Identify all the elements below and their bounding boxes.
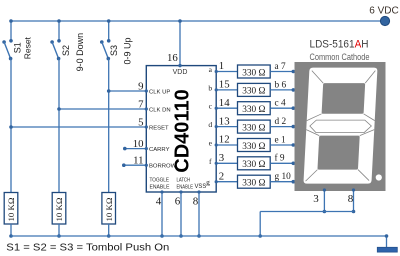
svg-text:VSS: VSS <box>195 183 207 190</box>
svg-text:b: b <box>208 83 212 92</box>
svg-text:2: 2 <box>219 170 224 182</box>
svg-text:13: 13 <box>219 115 230 127</box>
svg-text:16: 16 <box>167 52 178 64</box>
svg-text:10 KΩ: 10 KΩ <box>104 197 114 221</box>
svg-text:CD40110: CD40110 <box>171 89 193 172</box>
svg-text:330 Ω: 330 Ω <box>242 142 265 152</box>
svg-text:CLK UP: CLK UP <box>149 89 170 95</box>
svg-text:c 4: c 4 <box>275 99 286 109</box>
svg-text:8: 8 <box>193 196 199 208</box>
svg-text:3: 3 <box>219 152 224 164</box>
svg-text:S2: S2 <box>61 45 71 56</box>
svg-text:LATCH: LATCH <box>177 178 191 184</box>
svg-text:12: 12 <box>219 134 230 146</box>
svg-text:330 Ω: 330 Ω <box>242 87 265 97</box>
svg-text:CARRY: CARRY <box>149 147 170 153</box>
svg-text:CLK DN: CLK DN <box>149 107 171 113</box>
svg-text:VDD: VDD <box>173 69 188 76</box>
svg-text:ENABLE: ENABLE <box>177 185 194 191</box>
svg-text:9: 9 <box>138 80 143 92</box>
svg-text:5: 5 <box>138 116 143 128</box>
svg-text:1: 1 <box>219 60 224 72</box>
svg-text:e 1: e 1 <box>275 135 286 145</box>
svg-text:8: 8 <box>348 193 354 205</box>
svg-text:11: 11 <box>133 155 143 167</box>
svg-text:9-0 Down: 9-0 Down <box>75 33 85 72</box>
svg-text:14: 14 <box>219 97 230 109</box>
svg-text:g: g <box>206 178 210 187</box>
svg-text:15: 15 <box>219 79 230 91</box>
svg-text:S1 = S2 = S3 = Tombol Push On: S1 = S2 = S3 = Tombol Push On <box>6 242 169 254</box>
svg-text:Common Cathode: Common Cathode <box>310 52 370 62</box>
svg-text:LDS-5161AH: LDS-5161AH <box>310 39 369 51</box>
svg-text:330 Ω: 330 Ω <box>242 123 265 133</box>
svg-text:S3: S3 <box>109 45 119 56</box>
svg-text:d 2: d 2 <box>275 117 287 127</box>
svg-text:TOGGLE: TOGGLE <box>150 178 170 184</box>
svg-text:d: d <box>208 120 212 129</box>
svg-text:6 VDC: 6 VDC <box>369 6 398 17</box>
svg-text:10 KΩ: 10 KΩ <box>6 197 16 221</box>
svg-text:b 6: b 6 <box>275 80 287 90</box>
svg-text:330 Ω: 330 Ω <box>242 160 265 170</box>
svg-text:10 KΩ: 10 KΩ <box>54 197 64 221</box>
svg-text:330 Ω: 330 Ω <box>242 68 265 78</box>
svg-text:f 9: f 9 <box>275 153 285 164</box>
svg-text:10: 10 <box>133 138 144 150</box>
svg-text:RESET: RESET <box>149 125 169 131</box>
svg-text:4: 4 <box>156 196 162 208</box>
svg-text:3: 3 <box>313 193 319 205</box>
svg-text:330 Ω: 330 Ω <box>242 179 265 189</box>
svg-text:0-9 Up: 0-9 Up <box>123 37 133 64</box>
svg-text:6: 6 <box>175 196 181 208</box>
svg-text:g 10: g 10 <box>275 172 292 182</box>
svg-text:a 7: a 7 <box>275 62 286 72</box>
svg-text:Reset: Reset <box>23 36 33 59</box>
svg-text:330 Ω: 330 Ω <box>242 105 265 115</box>
svg-text:S1: S1 <box>12 42 22 53</box>
svg-text:ENABLE: ENABLE <box>150 185 170 191</box>
svg-text:7: 7 <box>138 98 144 110</box>
